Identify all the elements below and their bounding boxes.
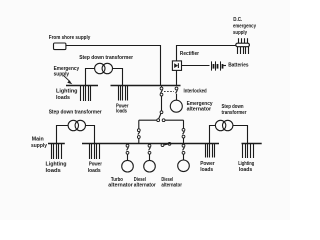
svg-text:alternator: alternator: [108, 183, 133, 189]
svg-text:alternator: alternator: [134, 183, 157, 189]
svg-text:emergency: emergency: [233, 23, 257, 29]
svg-text:loads: loads: [239, 167, 253, 173]
svg-text:Lighting: Lighting: [56, 89, 78, 95]
svg-text:Batteries: Batteries: [228, 62, 248, 68]
svg-text:Interlocked: Interlocked: [184, 88, 208, 94]
svg-text:transformer: transformer: [222, 110, 248, 116]
svg-text:loads: loads: [56, 95, 70, 101]
svg-text:loads: loads: [116, 109, 127, 115]
svg-text:Power: Power: [89, 161, 103, 167]
svg-text:loads: loads: [88, 168, 101, 174]
svg-text:Step down: Step down: [222, 104, 244, 110]
svg-text:alternator: alternator: [187, 107, 212, 113]
svg-text:Main: Main: [32, 136, 45, 142]
svg-text:loads: loads: [200, 167, 213, 173]
svg-text:D.C.: D.C.: [233, 17, 242, 23]
svg-text:Step down transformer: Step down transformer: [79, 55, 134, 61]
svg-text:Rectifier: Rectifier: [180, 51, 200, 57]
svg-text:Step down transformer: Step down transformer: [49, 110, 103, 116]
svg-text:supply: supply: [233, 30, 248, 36]
svg-text:alternator: alternator: [161, 183, 182, 189]
svg-text:From shore supply: From shore supply: [49, 35, 91, 41]
svg-text:supply: supply: [54, 71, 70, 77]
svg-text:Lighting: Lighting: [46, 161, 68, 167]
svg-text:loads: loads: [46, 168, 61, 174]
svg-text:supply: supply: [31, 143, 48, 149]
